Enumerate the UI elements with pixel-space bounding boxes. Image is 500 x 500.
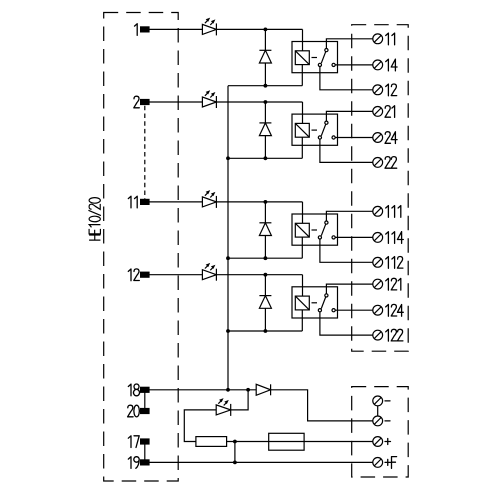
- terminal 121 label: [386, 278, 401, 290]
- relay K3 contact set: [318, 221, 335, 239]
- terminal 21 (common): [373, 107, 383, 117]
- terminal 22 (NC): [373, 158, 383, 168]
- wire contact common to terminal 11: [326, 39, 372, 49]
- wire NC contact to terminal 12: [320, 67, 373, 90]
- wire NC contact to terminal 122: [320, 312, 373, 335]
- LED V3 (channel indicator): [202, 190, 216, 208]
- relay K3 outline box: [292, 214, 338, 245]
- wire coil return down to bus row: [301, 65, 303, 86]
- relay K2 coil: [295, 123, 317, 137]
- wire coil return down to bus row: [301, 137, 303, 158]
- link pins 17-19: [144, 444, 146, 460]
- terminal 14 label: [386, 59, 397, 71]
- freewheeling diode D4: [259, 275, 271, 331]
- connector label HE10/20: [88, 198, 100, 240]
- supply terminal block dashed border (lower right box): [352, 387, 409, 477]
- wire contact common to terminal 121: [326, 284, 372, 294]
- pin 20 label: [128, 405, 140, 417]
- LED V1 (channel indicator): [202, 18, 216, 36]
- terminal 111 (common): [373, 206, 383, 216]
- wire NC contact to terminal 22: [320, 139, 373, 162]
- reverse polarity diode D5: [256, 384, 270, 395]
- terminal 11 label: [386, 33, 395, 45]
- junction dot diode anode / return: [264, 84, 268, 88]
- pin 2 label: [134, 96, 140, 108]
- dashed link pin2-pin11 (omitted pins): [144, 106, 146, 200]
- relay K4 coil: [295, 296, 317, 310]
- junction dot diode anode / return: [264, 256, 268, 260]
- wire NO contact to terminal 114: [335, 236, 373, 238]
- pin 11 label: [128, 196, 137, 208]
- LED V2 (channel indicator): [202, 90, 216, 108]
- terminal 21 label: [385, 106, 395, 118]
- terminal 24 (NO): [373, 133, 383, 143]
- relay K1 coil: [295, 51, 317, 65]
- terminal 14 (NO): [373, 60, 383, 70]
- junction dot bus end on pin18 wire: [226, 388, 230, 392]
- return wire channel 4: [228, 330, 302, 332]
- wire LED V5 anode to R1: [184, 410, 216, 442]
- wire pin 2 to LED: [149, 101, 202, 103]
- return wire channel 1: [228, 85, 302, 87]
- pin 20 connector contact: [141, 409, 149, 414]
- terminal plus fused label: [385, 457, 397, 469]
- wire contact common to terminal 21: [326, 111, 372, 121]
- terminal 122 (NC): [373, 330, 383, 340]
- terminal 22 label: [385, 157, 397, 169]
- terminal 112 label: [386, 257, 403, 269]
- wire LED to coil feed: [216, 101, 302, 103]
- relay K3 coil: [295, 223, 317, 237]
- junction dot diode anode / return: [264, 156, 268, 160]
- LED V4 (channel indicator): [202, 263, 216, 281]
- wire coil feed down: [302, 29, 304, 50]
- wire pin 12 to LED: [149, 274, 202, 276]
- output terminal block dashed border (upper right box): [352, 25, 409, 352]
- junction dot R1/fuse/+F: [233, 440, 237, 444]
- pin 17 connector contact: [141, 439, 149, 444]
- junction dot LED branch on pin18 wire: [246, 388, 250, 392]
- pin 18 label: [128, 384, 139, 396]
- return wire channel 2: [228, 157, 302, 159]
- connector module dashed border (left box): [104, 13, 179, 482]
- freewheeling diode D1: [259, 29, 271, 85]
- power indicator LED V5: [216, 398, 231, 416]
- terminal minus 1: [373, 396, 383, 406]
- pin 2 connector contact (square): [141, 100, 149, 105]
- link minus terminals: [377, 406, 379, 416]
- fuse F1: [269, 433, 304, 450]
- wire through fuse to plus terminal: [269, 441, 373, 443]
- terminal 112 (NC): [373, 257, 383, 267]
- link pins 18-20: [144, 392, 146, 408]
- freewheeling diode D3: [259, 202, 271, 258]
- terminal 12 (NC): [373, 85, 383, 95]
- terminal 121 (common): [373, 279, 383, 289]
- node channel 1 (junction dot): [264, 28, 268, 32]
- wire NO contact to terminal 124: [335, 309, 373, 311]
- pin 18 connector contact: [141, 387, 149, 392]
- wire coil feed down: [302, 102, 304, 123]
- wire coil feed down: [302, 275, 304, 296]
- terminal 122 label: [386, 329, 403, 341]
- wire LED to coil feed: [216, 201, 302, 203]
- wire contact common to terminal 111: [326, 211, 372, 221]
- wire pin 19 to +F terminal: [149, 461, 373, 463]
- pin 12 connector contact (square): [141, 272, 149, 277]
- wire LED branch down: [231, 390, 248, 410]
- terminal plus fused: [373, 458, 383, 468]
- wire NO contact to terminal 24: [335, 137, 373, 139]
- junction dot diode anode / return: [264, 329, 268, 333]
- wire coil feed down: [302, 202, 304, 223]
- wire pin 11 to LED: [149, 201, 202, 203]
- terminal minus 2: [373, 416, 383, 426]
- junction dot on +F row: [233, 461, 237, 465]
- junction dot bus/return: [226, 256, 230, 260]
- terminal 11 (common): [373, 34, 383, 44]
- relay K1 contact set: [318, 49, 335, 67]
- node channel 4 (junction dot): [264, 273, 268, 277]
- terminal plus label: [385, 439, 391, 445]
- terminal 124 label: [386, 304, 404, 316]
- wire LED to coil feed: [216, 274, 302, 276]
- terminal plus: [373, 437, 383, 447]
- resistor R1: [196, 437, 227, 447]
- return wire channel 3: [228, 257, 302, 259]
- wire NC contact to terminal 112: [320, 239, 373, 262]
- relay K1 outline box: [292, 42, 338, 73]
- junction dot bus/return: [226, 329, 230, 333]
- wire junction down to +F row: [234, 442, 236, 463]
- pin 1 label: [135, 24, 138, 36]
- relay K2 contact set: [318, 121, 335, 139]
- wire LED to coil feed: [216, 28, 302, 30]
- pin 11 connector contact (square): [141, 199, 149, 204]
- wire coil return down to bus row: [301, 310, 303, 331]
- pin 19 connector contact: [141, 460, 149, 465]
- terminal 124 (NO): [373, 305, 383, 315]
- junction dot bus/return: [226, 156, 230, 160]
- wire R1 to fuse: [227, 441, 269, 443]
- relay K4 contact set: [318, 294, 335, 312]
- terminal 12 label: [386, 84, 397, 96]
- freewheeling diode D2: [259, 102, 271, 158]
- pin 1 connector contact (square): [141, 27, 149, 32]
- wire NO contact to terminal 14: [335, 64, 373, 66]
- terminal 114 (NO): [373, 233, 383, 243]
- terminal minus 2 label: [385, 420, 390, 422]
- node channel 3 (junction dot): [264, 200, 268, 204]
- wire pin 1 to LED: [149, 28, 202, 30]
- pin 17 label: [128, 436, 139, 448]
- terminal minus 1 label: [385, 400, 390, 402]
- node channel 2 (junction dot): [264, 100, 268, 104]
- terminal 111 label: [386, 206, 401, 218]
- terminal 24 label: [385, 132, 397, 144]
- relay K4 outline box: [292, 287, 338, 318]
- wire coil return down to bus row: [301, 237, 303, 258]
- relay K2 outline box: [292, 114, 338, 145]
- pin 12 label: [128, 269, 139, 281]
- wire D5 cathode to minus terminal: [271, 390, 373, 421]
- pin 19 label: [128, 457, 139, 469]
- wire pin 18 row: [149, 389, 256, 391]
- terminal 114 label: [386, 232, 404, 244]
- common coil bus wire: [227, 86, 229, 390]
